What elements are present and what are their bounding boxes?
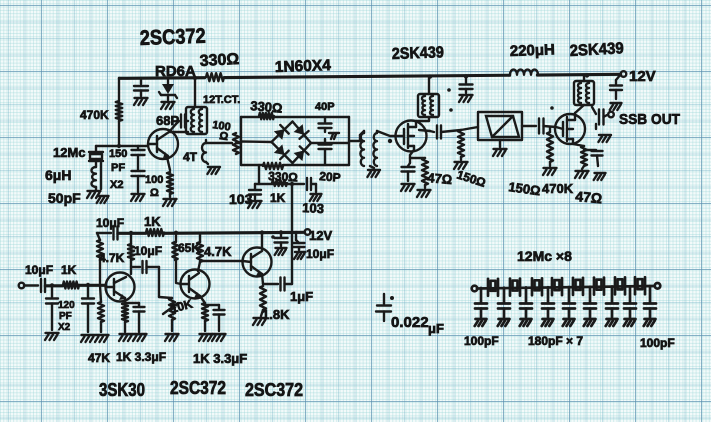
svg-text:100: 100 bbox=[145, 174, 163, 186]
svg-text:1N60X4: 1N60X4 bbox=[275, 57, 332, 76]
svg-text:10μF: 10μF bbox=[96, 216, 124, 230]
svg-text:SSB OUT: SSB OUT bbox=[619, 111, 680, 128]
svg-text:47Ω: 47Ω bbox=[427, 170, 453, 187]
svg-text:2SC372: 2SC372 bbox=[139, 25, 206, 50]
svg-text:103: 103 bbox=[302, 200, 324, 216]
svg-text:150: 150 bbox=[109, 148, 127, 160]
svg-text:4.7K: 4.7K bbox=[204, 244, 232, 259]
svg-text:Ω: Ω bbox=[219, 130, 230, 143]
svg-text:PF: PF bbox=[59, 311, 72, 322]
svg-text:330Ω: 330Ω bbox=[199, 51, 240, 70]
svg-text:330Ω: 330Ω bbox=[268, 169, 299, 185]
svg-text:10μF: 10μF bbox=[306, 247, 334, 261]
svg-text:0.022: 0.022 bbox=[391, 314, 429, 331]
svg-text:1K: 1K bbox=[144, 214, 161, 229]
svg-text:103: 103 bbox=[229, 191, 253, 207]
svg-text:68P: 68P bbox=[156, 113, 179, 128]
svg-text:10μF: 10μF bbox=[134, 244, 162, 258]
svg-text:120: 120 bbox=[58, 300, 75, 311]
svg-text:150Ω: 150Ω bbox=[508, 179, 542, 198]
svg-text:Ω: Ω bbox=[150, 187, 159, 199]
svg-text:1K 3.3μF: 1K 3.3μF bbox=[193, 351, 247, 366]
svg-text:PF: PF bbox=[111, 162, 125, 174]
svg-text:2SC372: 2SC372 bbox=[170, 378, 226, 398]
svg-text:X2: X2 bbox=[58, 322, 71, 333]
svg-text:3SK30: 3SK30 bbox=[99, 380, 145, 400]
svg-text:1K: 1K bbox=[61, 263, 77, 277]
svg-text:12V: 12V bbox=[309, 228, 332, 243]
svg-text:12T.CT.: 12T.CT. bbox=[203, 94, 240, 106]
svg-text:12Mc: 12Mc bbox=[53, 145, 86, 160]
svg-text:330Ω: 330Ω bbox=[250, 98, 283, 116]
svg-text:47Ω: 47Ω bbox=[575, 188, 603, 206]
svg-text:2SK439: 2SK439 bbox=[569, 40, 624, 60]
svg-text:12Mc ×8: 12Mc ×8 bbox=[517, 248, 572, 264]
svg-text:1K 3.3μF: 1K 3.3μF bbox=[116, 350, 166, 364]
svg-text:10μF: 10μF bbox=[25, 263, 53, 277]
svg-text:20P: 20P bbox=[319, 169, 341, 185]
svg-text:X2: X2 bbox=[110, 179, 123, 191]
svg-text:470K: 470K bbox=[542, 181, 574, 196]
svg-text:RD6A: RD6A bbox=[155, 63, 196, 80]
svg-text:47K: 47K bbox=[88, 351, 110, 365]
svg-text:4T: 4T bbox=[183, 150, 198, 164]
svg-text:10K: 10K bbox=[169, 297, 194, 316]
svg-text:470K: 470K bbox=[80, 108, 109, 122]
svg-text:2SC372: 2SC372 bbox=[245, 380, 303, 400]
svg-text:40P: 40P bbox=[315, 101, 335, 113]
svg-text:1μF: 1μF bbox=[290, 289, 313, 304]
svg-text:100pF: 100pF bbox=[464, 334, 499, 348]
svg-text:μF: μF bbox=[428, 321, 444, 336]
svg-text:100pF: 100pF bbox=[640, 336, 675, 350]
svg-text:150Ω: 150Ω bbox=[455, 168, 488, 191]
svg-text:4.7K: 4.7K bbox=[99, 251, 125, 265]
svg-text:180pF × 7: 180pF × 7 bbox=[528, 334, 583, 348]
svg-text:12V: 12V bbox=[629, 68, 656, 85]
svg-text:6μH: 6μH bbox=[45, 167, 71, 183]
svg-text:50pF: 50pF bbox=[48, 190, 81, 206]
svg-text:1K: 1K bbox=[270, 191, 286, 205]
svg-text:2SK439: 2SK439 bbox=[392, 44, 445, 63]
svg-text:65K: 65K bbox=[178, 241, 200, 255]
svg-text:1.8K: 1.8K bbox=[262, 307, 290, 322]
svg-text:220μH: 220μH bbox=[510, 41, 556, 60]
